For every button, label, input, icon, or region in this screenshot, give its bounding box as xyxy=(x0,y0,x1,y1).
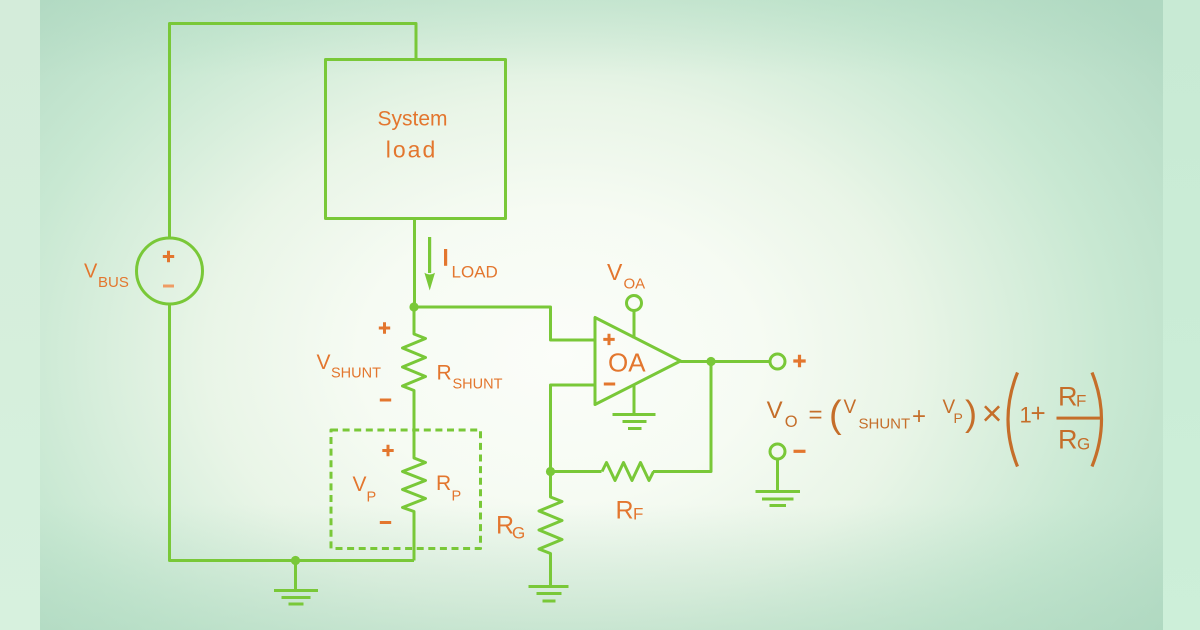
svg-text:R: R xyxy=(1058,382,1078,412)
svg-text:V: V xyxy=(353,473,367,496)
power terminal VOA circle xyxy=(627,296,642,311)
op-amp plus input mark xyxy=(603,334,614,345)
formula fraction bar xyxy=(1057,417,1102,420)
output plus mark xyxy=(793,355,805,367)
svg-text:V: V xyxy=(607,259,623,285)
output minus mark xyxy=(794,450,806,453)
wire RF to inverting node xyxy=(551,470,602,473)
wire minus terminal ground stub xyxy=(776,459,779,491)
wire node A to op-amp noninverting input xyxy=(414,307,595,340)
svg-text:G: G xyxy=(1077,435,1090,454)
formula big right paren xyxy=(1092,373,1102,467)
polarity minus VP xyxy=(380,521,391,524)
svg-text:load: load xyxy=(386,137,437,163)
node inverting input junction dot xyxy=(546,467,555,476)
svg-text:(: ( xyxy=(829,394,842,436)
svg-text:+: + xyxy=(912,403,926,430)
wire feedback from output node xyxy=(653,362,711,472)
formula big left paren xyxy=(1008,373,1018,467)
output terminal minus circle xyxy=(770,444,785,459)
op-amp U1 triangle xyxy=(595,318,681,405)
svg-text:P: P xyxy=(954,410,963,426)
svg-text:R: R xyxy=(436,472,451,495)
svg-text:R: R xyxy=(437,362,452,385)
node A junction dot xyxy=(409,302,418,311)
wire bottom rail xyxy=(170,304,415,561)
wire op-amp ground stub xyxy=(633,386,636,415)
svg-text:V: V xyxy=(844,397,857,418)
wire op-amp output xyxy=(681,360,771,363)
svg-text:O: O xyxy=(785,413,798,431)
system load block xyxy=(326,60,506,219)
polarity minus VBUS xyxy=(163,285,174,288)
wire VOA stub xyxy=(633,311,636,339)
svg-text:=: = xyxy=(809,402,823,429)
svg-text:LOAD: LOAD xyxy=(452,263,498,282)
resistor RF xyxy=(602,463,654,481)
dashed box VP RP xyxy=(331,430,481,549)
output terminal plus circle xyxy=(770,354,785,369)
wire system load bottom to node A xyxy=(413,219,416,308)
wire VBUS bottom ground stub xyxy=(294,561,297,591)
voltage source VBUS xyxy=(137,238,203,304)
node output junction dot xyxy=(706,357,715,366)
ground output minus xyxy=(756,492,801,506)
wire VBUS top to system load xyxy=(170,24,417,240)
svg-text:System: System xyxy=(377,108,447,131)
svg-text:OA: OA xyxy=(624,276,646,293)
ground RG xyxy=(529,587,569,602)
resistor RP xyxy=(403,430,426,561)
svg-text:): ) xyxy=(965,393,977,434)
ground op-amp xyxy=(613,415,656,429)
svg-text:R: R xyxy=(1058,425,1078,455)
ground bottom rail xyxy=(274,591,318,605)
svg-text:+: + xyxy=(1031,398,1046,428)
polarity plus VP xyxy=(382,445,393,456)
wire op-amp inverting input xyxy=(551,385,596,472)
svg-text:SHUNT: SHUNT xyxy=(331,366,381,382)
svg-text:F: F xyxy=(633,505,643,524)
resistor RG xyxy=(539,472,562,587)
op-amp minus input mark xyxy=(604,383,615,386)
polarity minus VSHUNT xyxy=(380,399,391,402)
svg-text:V: V xyxy=(317,351,331,374)
current arrow ILOAD xyxy=(428,237,431,273)
svg-text:×: × xyxy=(982,393,1003,434)
svg-text:BUS: BUS xyxy=(98,274,129,291)
label ILOAD xyxy=(444,249,447,266)
polarity plus VSHUNT xyxy=(379,322,390,333)
svg-text:OA: OA xyxy=(608,348,646,378)
svg-text:SHUNT: SHUNT xyxy=(453,377,503,393)
svg-text:F: F xyxy=(1076,392,1086,411)
resistor RSHUNT xyxy=(403,307,426,430)
svg-text:V: V xyxy=(84,261,98,283)
svg-text:P: P xyxy=(367,490,377,506)
svg-text:G: G xyxy=(512,524,525,543)
svg-text:R: R xyxy=(616,497,634,525)
svg-text:SHUNT: SHUNT xyxy=(859,416,911,433)
svg-text:P: P xyxy=(452,489,462,505)
svg-text:V: V xyxy=(767,397,783,424)
node bottom rail junction dot xyxy=(291,556,300,565)
polarity plus VBUS xyxy=(163,251,174,262)
